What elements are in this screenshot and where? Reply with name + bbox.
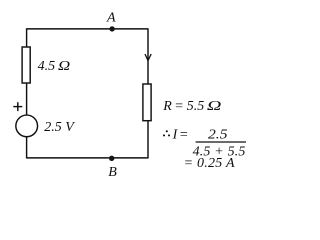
resistor R 5.5 ohm body [143, 84, 151, 121]
svg-text:4.5: 4.5 [38, 59, 56, 74]
wire top (node A rail) [27, 28, 148, 30]
wire right lower (resistor R to corner) [147, 121, 149, 159]
label 2.5 V value [44, 120, 75, 135]
node A label [106, 10, 116, 25]
resistor 4.5 ohm body [22, 47, 30, 83]
formula result 0.25 A [184, 156, 235, 171]
svg-text:= 0.25 A: = 0.25 A [184, 156, 235, 171]
wire left middle (resistor to source) [26, 83, 28, 115]
formula numerator 2.5 [208, 127, 228, 142]
therefore symbol dots [163, 130, 170, 136]
svg-text:B: B [108, 165, 117, 180]
node B junction dot [109, 156, 114, 161]
svg-text:5.5: 5.5 [187, 99, 205, 114]
wire left upper (corner to resistor) [26, 28, 28, 47]
svg-text:R: R [162, 99, 172, 114]
wire bottom (node B rail) [27, 157, 148, 159]
node A junction dot [109, 26, 114, 31]
svg-text:2.5 V: 2.5 V [44, 120, 75, 135]
node B label [108, 165, 117, 180]
svg-text:2.5: 2.5 [208, 127, 228, 142]
svg-text:A: A [106, 10, 116, 25]
label R = 5.5 ohm value [162, 99, 221, 114]
fraction bar [196, 141, 246, 143]
svg-text:=: = [174, 99, 183, 114]
formula I equals [172, 127, 189, 142]
svg-text:Ω: Ω [207, 99, 222, 114]
svg-text:=: = [179, 127, 188, 142]
formula denominator 4.5 + 5.5 [193, 145, 246, 160]
svg-text:Ω: Ω [58, 59, 70, 74]
current direction arrow [145, 54, 151, 61]
wire left lower (source to corner) [26, 137, 28, 159]
plus polarity mark [13, 102, 22, 111]
label 4.5 ohm value [38, 59, 71, 74]
svg-text:I: I [172, 127, 179, 142]
voltage source V1 circle [16, 115, 38, 137]
wire right upper (corner to resistor R) [147, 28, 149, 84]
